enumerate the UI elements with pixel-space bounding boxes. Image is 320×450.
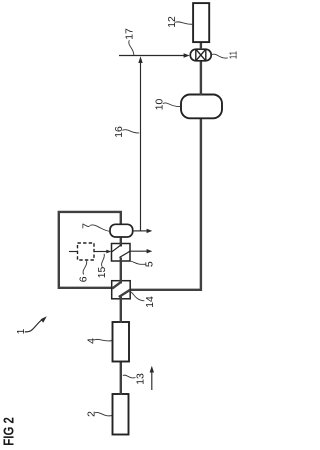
valve 11 (190, 49, 211, 61)
heat exchanger 14 (112, 280, 131, 300)
recuperator loop pipe (left return path) (59, 212, 121, 288)
label 15 (97, 267, 108, 279)
line 16 (branch up to 17) (138, 56, 142, 231)
wire 2 to 4 (120, 361, 122, 395)
leader squiggle for 16 (122, 130, 139, 133)
line 17 (feed into valve 11) (119, 53, 190, 57)
signal arrow 15 from 6 into 5 (94, 250, 111, 254)
wire 14 to 5 (120, 258, 122, 281)
leader squiggle for 13 (123, 375, 136, 378)
stub line into 6 (69, 251, 78, 253)
label 17 (125, 28, 136, 40)
label 6 (78, 276, 89, 282)
heat exchanger 5 (112, 243, 131, 262)
svg-text:5: 5 (145, 261, 156, 267)
svg-text:13: 13 (135, 373, 146, 385)
leader squiggle for 15 (102, 254, 105, 267)
label 1 (16, 328, 27, 334)
svg-text:16: 16 (114, 126, 125, 138)
svg-text:4: 4 (86, 338, 97, 344)
vessel 2 (113, 394, 129, 435)
leader squiggle for 7 (90, 225, 110, 231)
vent arrow from 5 (130, 249, 152, 253)
vessel 4 (113, 322, 130, 362)
label 11 (228, 51, 239, 59)
svg-text:6: 6 (78, 276, 89, 282)
leader squiggle for 2 (95, 412, 113, 415)
wire 10 to valve 11 (200, 61, 202, 95)
vent arrow from 7 (133, 229, 153, 233)
wire 5 to 7 (120, 236, 122, 244)
svg-text:11: 11 (228, 51, 239, 59)
label 16 (114, 126, 125, 138)
controller 6 (dashed box) (78, 243, 95, 260)
curved arrow for 1 (25, 316, 47, 332)
leader squiggle for 6 (83, 261, 87, 275)
label 2 (86, 411, 97, 417)
figure title FIG 2 (2, 417, 18, 446)
blower 7 (110, 224, 133, 237)
label 10 (155, 99, 166, 111)
svg-text:7: 7 (82, 223, 93, 229)
leader squiggle for 4 (94, 339, 112, 341)
leader squiggle for 14 (130, 292, 144, 301)
svg-text:17: 17 (125, 28, 136, 40)
label 13 (135, 373, 146, 385)
svg-text:15: 15 (97, 267, 108, 279)
label 14 (145, 296, 156, 308)
tank 12 (193, 3, 209, 42)
wire valve 11 to tank 12 (200, 42, 202, 49)
main pipe 14 to 10 (right bottom run) (130, 118, 201, 290)
leader squiggle for 5 (130, 261, 146, 264)
svg-text:14: 14 (145, 296, 156, 308)
svg-text:10: 10 (155, 99, 166, 111)
label 4 (86, 338, 97, 344)
tank 10 (181, 95, 222, 119)
flow arrow 13 (150, 366, 154, 390)
leader squiggle for 12 (175, 22, 193, 24)
label 12 (167, 16, 178, 28)
svg-text:FIG 2: FIG 2 (2, 417, 18, 446)
label 5 (145, 261, 156, 267)
leader squiggle for 17 (129, 40, 134, 55)
leader squiggle for 10 (163, 103, 181, 107)
wire 4 to 14 (120, 296, 122, 323)
label 7 (82, 223, 93, 229)
svg-text:2: 2 (86, 411, 97, 417)
leader squiggle for 11 (212, 54, 228, 58)
